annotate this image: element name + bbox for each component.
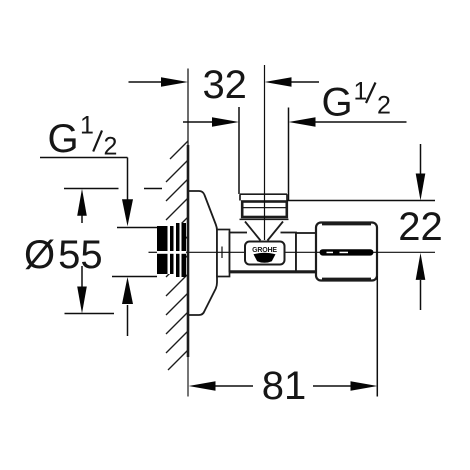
svg-text:Ø55: Ø55 [24, 233, 103, 277]
svg-text:2: 2 [104, 133, 118, 161]
svg-text:32: 32 [202, 63, 247, 107]
svg-text:2: 2 [377, 92, 391, 120]
svg-text:1: 1 [80, 112, 94, 140]
svg-text:22: 22 [398, 205, 443, 249]
svg-text:G: G [322, 81, 353, 125]
svg-text:1: 1 [354, 78, 368, 106]
svg-text:81: 81 [262, 364, 307, 408]
svg-text:GROHE: GROHE [252, 247, 277, 254]
svg-text:G: G [48, 117, 79, 161]
